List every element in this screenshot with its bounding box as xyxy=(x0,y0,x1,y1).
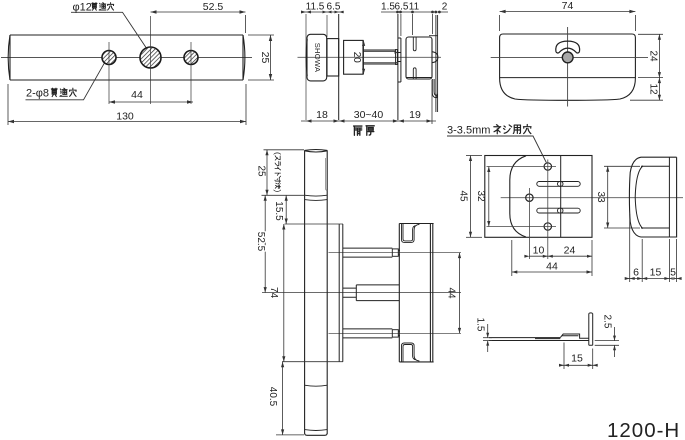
thumbturn shaft circle (hatched) xyxy=(562,52,573,63)
receiver body xyxy=(406,36,438,79)
svg-text:2-φ8: 2-φ8 xyxy=(26,88,49,100)
slide mark extension line xyxy=(262,194,305,196)
backplate bottom extension line xyxy=(282,361,343,363)
svg-text:6.5: 6.5 xyxy=(327,2,341,13)
svg-text:74: 74 xyxy=(562,0,574,12)
dim 20 cylinder xyxy=(362,40,365,74)
bar inner edge line xyxy=(325,158,327,191)
frame bracket vertical leg (profile) xyxy=(589,313,593,345)
svg-text:SHOWA: SHOWA xyxy=(313,43,322,73)
dim 44 bar holes xyxy=(109,100,193,103)
svg-text:1.5: 1.5 xyxy=(381,2,395,13)
dim 1.5 plate thickness xyxy=(483,324,492,352)
main centerline middle view xyxy=(262,292,461,294)
dim 15.5 xyxy=(285,195,288,224)
dim 32 strike holes xyxy=(487,167,490,227)
svg-text:44: 44 xyxy=(546,261,558,273)
dim 25 bar width xyxy=(248,35,274,80)
svg-text:2.5: 2.5 xyxy=(602,315,613,329)
backplate (edge view) xyxy=(339,224,343,362)
bar bottom extension line xyxy=(276,434,304,436)
door right face line xyxy=(397,14,399,120)
bar slide joint marks xyxy=(305,195,328,200)
svg-text:25: 25 xyxy=(256,165,267,177)
svg-text:20: 20 xyxy=(351,52,362,64)
dim 2.5 lip xyxy=(595,327,619,357)
svg-text:12: 12 xyxy=(648,83,659,95)
dim 52.5 xyxy=(264,195,267,292)
receiver hook J xyxy=(432,79,437,98)
screw centerline bottom xyxy=(329,332,462,334)
plate horizontal centerline xyxy=(491,56,648,58)
label slide dimension (sliding stroke) rotated xyxy=(273,152,283,193)
svg-text:74: 74 xyxy=(268,287,279,299)
hook arm plate (profile) xyxy=(489,334,589,341)
cover plate outline (front) xyxy=(500,34,636,100)
svg-text:40.5: 40.5 xyxy=(267,387,278,407)
screw centerline top xyxy=(329,252,462,254)
dim 33 catch xyxy=(604,166,640,228)
plate vertical centerline xyxy=(567,27,569,107)
dim row 1.5 / 6.5 / 11 / 2 xyxy=(381,11,448,36)
svg-text:2: 2 xyxy=(442,2,448,13)
door left face line xyxy=(338,14,340,120)
dim 6 / 15 / 5 catch xyxy=(625,214,682,282)
spindle rod xyxy=(363,50,401,65)
dim row 11.5 / 6.5 xyxy=(301,11,344,14)
strike plate centerline horizontal xyxy=(501,197,683,199)
receiver notch top xyxy=(413,37,416,51)
svg-text:33: 33 xyxy=(595,191,606,203)
label phi12 through hole xyxy=(71,2,146,48)
dim 25 slide xyxy=(265,150,268,196)
svg-text:52.5: 52.5 xyxy=(203,1,224,13)
receiver top hook tab xyxy=(402,224,420,243)
hole centerlines vertical xyxy=(109,16,191,104)
dim 45 strike xyxy=(466,156,482,238)
knob (SHOWA) xyxy=(306,34,327,81)
svg-text:44: 44 xyxy=(131,89,143,101)
receiver flange plate xyxy=(398,38,401,82)
svg-text:25: 25 xyxy=(259,52,271,64)
dim 130 overall xyxy=(8,84,246,125)
center spindle (front view) xyxy=(343,285,399,301)
hole phi8 right (hatched) xyxy=(184,51,198,65)
dim 24 / 12 plate xyxy=(630,34,663,100)
receiver bottom hook tab xyxy=(402,343,420,362)
svg-text:φ12: φ12 xyxy=(73,2,92,14)
handle bar body (top view) xyxy=(8,35,245,80)
label 2-phi8 through holes xyxy=(26,63,105,100)
svg-text:24: 24 xyxy=(648,50,659,62)
svg-text:24: 24 xyxy=(564,245,576,257)
hole phi8 left (hatched) xyxy=(102,51,116,65)
svg-text:52.5: 52.5 xyxy=(255,232,266,252)
svg-text:18: 18 xyxy=(316,109,328,121)
dim 52.5 xyxy=(151,10,246,33)
svg-text:): ) xyxy=(273,190,283,193)
backplate top extension line xyxy=(285,223,344,225)
strike D-shaped boss xyxy=(510,156,526,237)
dim 10 / 24 strike xyxy=(524,240,592,276)
dim 74 plate xyxy=(500,10,636,31)
bottom mounting screw xyxy=(343,329,400,338)
svg-text:15: 15 xyxy=(571,353,583,365)
slot lower xyxy=(537,208,580,213)
centerline horizontal bar top view xyxy=(1,57,252,59)
extension lines top dims left group xyxy=(306,14,327,120)
bar top extension line xyxy=(264,149,305,151)
dim 74 xyxy=(282,224,285,362)
svg-text:15: 15 xyxy=(650,267,662,279)
bar lower joint mark xyxy=(305,385,328,386)
frame catch plate vertical xyxy=(436,15,438,112)
screw hole centerlines xyxy=(487,160,557,260)
catch side view outline xyxy=(629,157,676,237)
label 3-3.5mm screw holes xyxy=(447,125,546,163)
svg-text:32: 32 xyxy=(475,190,486,202)
receiver notch bottom xyxy=(413,68,416,79)
screw hole middle xyxy=(526,194,533,201)
svg-text:19: 19 xyxy=(409,109,421,121)
dim 15 flange xyxy=(559,343,598,370)
thumbturn wing xyxy=(556,41,580,53)
label door thickness (tobira-atsu) xyxy=(354,126,362,135)
hole phi12 center (hatched) xyxy=(140,47,161,68)
slot upper xyxy=(537,182,580,187)
svg-text:10: 10 xyxy=(533,245,545,257)
svg-text:130: 130 xyxy=(116,111,134,123)
catch inner bottom line xyxy=(641,227,669,229)
svg-text:1200-H: 1200-H xyxy=(607,419,680,440)
catch inner top line xyxy=(641,165,669,167)
catch back plate line xyxy=(668,157,670,237)
knob base plate xyxy=(327,39,339,76)
svg-text:11: 11 xyxy=(409,2,420,13)
strike plate bend line xyxy=(560,156,562,238)
handle bar (front view, vertical) xyxy=(305,150,328,436)
bottom dim row 18 / 30~40 / 19 xyxy=(301,80,436,124)
svg-text:3-3.5mm: 3-3.5mm xyxy=(447,125,490,137)
bar bottom joint mark xyxy=(305,429,328,432)
svg-text:15.5: 15.5 xyxy=(273,201,284,221)
svg-text:11.5: 11.5 xyxy=(306,2,325,13)
svg-text:5: 5 xyxy=(670,267,676,279)
centerline horizontal side view xyxy=(298,56,442,58)
svg-text:1.5: 1.5 xyxy=(475,318,486,332)
screw hole bottom xyxy=(544,223,551,230)
screw hole top xyxy=(544,163,551,170)
receiver body (front view) xyxy=(399,224,433,362)
dim 44 strike xyxy=(512,240,592,276)
dim 40.5 xyxy=(281,362,284,435)
svg-text:6: 6 xyxy=(633,267,639,279)
svg-text:(: ( xyxy=(273,152,283,155)
cover plate step line xyxy=(500,77,636,79)
svg-text:44: 44 xyxy=(446,287,457,299)
cylinder body xyxy=(344,40,363,74)
top mounting screw xyxy=(343,248,400,257)
spindle end bump xyxy=(432,52,438,63)
catch front inner curve xyxy=(635,166,643,229)
spindle tip wedges xyxy=(395,51,399,64)
dim 44 screws xyxy=(458,253,461,334)
svg-text:30~40: 30~40 xyxy=(354,109,384,121)
svg-text:45: 45 xyxy=(458,190,469,202)
svg-text:6.5: 6.5 xyxy=(395,2,409,13)
strike plate outline xyxy=(485,156,592,238)
